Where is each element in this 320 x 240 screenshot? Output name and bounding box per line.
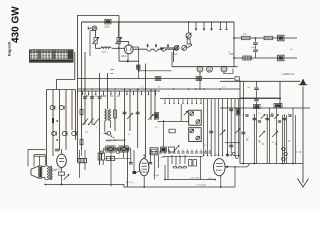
wire: mid col x=92 — [91, 91, 93, 125]
small loops near x=234 y=154 — [232, 152, 235, 155]
wire: right col x=254.3 — [253, 115, 255, 164]
wire: T2 bottom leads — [104, 121, 106, 132]
dark component on y=108 (x=274-282) — [274, 104, 282, 108]
pot arrow on x=151 — [148, 114, 154, 120]
wire: right col x=267.2 — [266, 115, 268, 164]
loop coil small 1 — [282, 147, 285, 150]
svg-text:5000: 5000 — [101, 95, 107, 98]
svg-text:1M: 1M — [85, 132, 88, 134]
wire: left col x=66 — [65, 90, 67, 151]
resistor R4 on B+ line — [264, 36, 273, 39]
bus: chassis bus y=89 (long) — [78, 88, 241, 90]
svg-text:AZ 1: AZ 1 — [121, 55, 127, 58]
cap x=231 y=146 — [229, 144, 233, 146]
junction: bus/vertical x=119 — [118, 21, 120, 23]
wire: electrolytic leads — [79, 163, 81, 178]
wire: V3 branch to bottom bus — [61, 175, 63, 184]
wire: trimmer chain up to resistor — [187, 44, 192, 48]
svg-text:0,2A: 0,2A — [105, 25, 110, 28]
tuning capacitor / dial block (hatched) — [30, 50, 74, 62]
wire: transformer top to column x=45.3 — [44, 155, 46, 166]
rectifier tube V1 (circle) — [124, 45, 133, 54]
wire: V3 down lead — [61, 167, 63, 172]
wire: right col x=269.5 — [269, 108, 271, 164]
wire: left col x=46.5 — [46, 90, 48, 166]
ground arrow (down) at x=303 — [302, 164, 304, 184]
cap on x=211 y=132 — [209, 130, 213, 132]
wire: right col x=282.4 — [281, 115, 283, 164]
small boxes x=188-196 y=160-170 — [189, 160, 192, 167]
bus: bottom left y=184.5 — [45, 184, 124, 186]
wire: right col x=284.4 — [283, 115, 285, 164]
electrolytic block (dark) x=78-86 — [78, 158, 87, 162]
cap C14 x=92 — [90, 96, 94, 98]
wire: drop from heater chain x=173.5 — [173, 50, 175, 62]
wire: V5 cathode down to bus — [220, 176, 222, 187]
wire: left rail x=77.5 vertical — [77, 16, 79, 163]
resistor R5 on y=58 line (hatched) — [243, 56, 252, 60]
junction dots left cols — [56, 120, 58, 122]
wire: mid-right col x=227.5 — [227, 99, 229, 156]
wire: speaker to transformer top — [42, 165, 48, 168]
trimmer pair T2 — [182, 46, 187, 51]
cap C15 x=99.6 — [98, 96, 102, 98]
cap x=231.2 y=110 — [229, 108, 233, 110]
dots tops right forest — [243, 114, 244, 115]
resistor boxes x=98-103 — [98, 153, 101, 160]
cap right col a — [241, 131, 245, 133]
svg-text:VL4: VL4 — [209, 178, 214, 181]
small circle symbols row x 100-130 y 151 — [100, 151, 103, 154]
cap symbol circle pair row y=108 a — [50, 106, 54, 110]
IF transformer T2 windings — [105, 109, 106, 121]
wire: V4 top lead — [143, 154, 145, 159]
voltage selector pot P1 (circle with arrow) — [186, 33, 191, 38]
wire: vertical x=158.5 short — [158, 155, 160, 168]
wire: V4 cathode down to bus — [143, 176, 145, 187]
loudspeaker LS (cone + frame) — [31, 166, 39, 178]
model label text: 430 GW (vertical, rotated) — [11, 6, 22, 43]
component box on y=78.5 bus (x=157) — [155, 77, 161, 81]
wire: right col x=276.7 — [276, 108, 278, 164]
wire: y=158.5 mid bottom with boxes — [105, 158, 131, 160]
junction dot row y=156 under forest — [203, 155, 204, 156]
wire: branch y=70.8 from x=138.7 to sockets — [139, 70, 172, 72]
resistor tick x=53 y=120 — [52, 118, 54, 123]
electrolytic cap C4 (dark box) on y=58 line — [278, 55, 285, 61]
wire: right col x=295.3 — [294, 115, 296, 164]
wire: lead into trimmer pair from left — [160, 47, 174, 49]
band switch arm 3 — [94, 119, 99, 125]
wire: left col x=75.5 lower — [75, 90, 77, 141]
pot arrow on x=130 — [127, 113, 133, 119]
band switch arm 1 — [83, 119, 88, 125]
wire: x=123.5 stub below block B — [123, 152, 125, 158]
junction dots bottom left bus — [61, 184, 63, 186]
wire: vertical x=181.2 into can D — [180, 104, 182, 122]
wire: socket line y=66.7 — [172, 66, 238, 68]
resistor R7 x=115 — [114, 110, 117, 118]
wire: mid-right col x=235 — [234, 99, 236, 156]
junction dots on chassis bus — [84, 88, 86, 90]
switch stub pair (x=226.5) — [226, 22, 228, 30]
socket circle S1 — [197, 66, 203, 72]
wire: horizontal y=140.1 — [106, 139, 126, 141]
wire: inner line y=98 right block — [240, 97, 281, 99]
wire: horizontal y=61.2 from x=119 to x=138.7 — [119, 60, 139, 62]
X-box block B (dark) — [119, 146, 128, 152]
wire: mid-right col x=211.2 — [210, 99, 212, 156]
bus: y=179.5 mid bottom — [165, 179, 215, 181]
cap symbol circle row y=134 a — [52, 131, 56, 135]
wire: lamp drop to R1 — [95, 31, 97, 38]
wire: lower right line y=58 — [234, 57, 297, 59]
heater tap stub 1 with arrow — [147, 44, 149, 48]
wire: mid-right col x=215 — [214, 99, 216, 156]
heater tap stub 2 with arrow — [155, 44, 157, 48]
electrolytic cap C3 (dark box) on B+ line — [278, 35, 285, 41]
cap symbol circle row y=134 c — [72, 131, 76, 135]
cap tick row y=152 (x 151..212) — [151, 150, 153, 152]
coil L1 (hum filter choke) — [101, 47, 111, 49]
resistor R2 with pot arrow — [117, 37, 120, 43]
tick stub row under chassis bus left — [82, 91, 84, 95]
resistor under P1 — [187, 39, 190, 44]
wire: left col x=53 — [52, 90, 54, 157]
wire: mid col x=130 — [129, 89, 131, 131]
wire: right rail x=234 from bus — [233, 22, 235, 67]
dark component on y=108 (x=254-260) — [254, 105, 261, 109]
tiny tick labels under pots right — [246, 139, 248, 141]
bus: y=78.5 mid (long) — [78, 78, 235, 80]
small box pair on y=158.5 — [106, 156, 110, 160]
bus: y=98.5 mid-right — [160, 98, 281, 100]
junction dots bottom right bus — [253, 163, 255, 165]
output transformer Tr windings — [47, 166, 48, 180]
driver tube V4 (oval) mid — [139, 159, 149, 176]
specks under V2 circle — [111, 136, 112, 137]
wire: vertical x=180 to loops — [179, 155, 181, 164]
fuse Si1 on mains bus — [105, 19, 111, 24]
wire: x=172 from 52 to 66.7 — [171, 52, 173, 67]
wire: R1 bottom to coil — [96, 44, 101, 49]
pot arrow x=176.8 y=148 — [174, 145, 179, 150]
cap on x=124.5 y=113 — [123, 111, 127, 113]
bus: y=108 right — [220, 107, 310, 109]
IF can E (box with trimmers) — [189, 128, 202, 142]
heater tap stub 3 with arrow — [167, 44, 169, 48]
switch stub row on mains bus (x=211.5) — [211, 22, 213, 31]
wire: vertical x=200.5 down — [200, 156, 202, 180]
band switch arm 2 — [89, 119, 94, 125]
wire: col x=39.6 — [39, 156, 41, 166]
X-box block A (dark) — [106, 146, 115, 152]
loop coil small 3 — [282, 157, 285, 160]
cap on x=227.5 above V5 — [227, 150, 229, 154]
wire: mid-right col x=218.7 — [218, 99, 220, 156]
bus: second line y=91 left part — [78, 90, 161, 92]
wire: left col x=72 — [71, 90, 73, 131]
svg-text:≈ 4×0,1μF: ≈ 4×0,1μF — [196, 183, 207, 186]
wire: mid col x=137.7 — [137, 89, 139, 148]
resistor box on left rail y=142 — [80, 139, 83, 145]
heater chain end connector — [175, 47, 178, 50]
wire: left feeder x=134 with dark blob — [133, 150, 135, 171]
wire: mid-right col x=207.5 — [207, 99, 209, 156]
wire: mid col x=145.6 — [145, 64, 147, 159]
bus: bottom right y=163.5 — [240, 163, 303, 165]
wire: block right lead to rail x=74.8 — [74, 52, 76, 80]
wire: horizontals y=154.5 left — [34, 154, 45, 156]
resistor box on left rail y=112 — [80, 109, 83, 115]
wire: mid col x=85 — [84, 91, 86, 125]
wire: x=111 down from block A — [110, 152, 112, 187]
cap C11 on x=256.5 (y 88-92) — [256, 81, 258, 87]
wire: mid col x=115 — [114, 91, 116, 131]
capacitor C1 (on x=255.5 between lines) — [255, 38, 257, 42]
junction at x=118.6 y=48.3 — [118, 47, 120, 49]
pot arrow right col c — [272, 131, 278, 137]
dark resistor box x=156.5 y=115.5 — [155, 113, 159, 120]
wire: x=165 vertical to grid row — [164, 165, 166, 180]
wire: right col x=243.4 — [242, 81, 244, 163]
wire: verticals under socket row to forest bottom — [167, 156, 169, 180]
component box on y=78.5 bus (x=237) small — [235, 77, 239, 80]
wire: right col x=286.7 — [286, 115, 288, 164]
wire: y=156.3 connector under forest — [163, 155, 203, 157]
bus: y=187 bottom long — [124, 186, 236, 188]
svg-text:≈+4/20V–Δ: ≈+4/20V–Δ — [281, 72, 294, 76]
loop coil small 2 — [284, 152, 287, 155]
dark can box x=153 y=148 — [150, 148, 158, 155]
wire: x=81.5 tail to switch row — [81, 150, 83, 156]
switch stub pair (x=220.5) — [220, 22, 222, 30]
svg-text:C/EM2: C/EM2 — [105, 141, 112, 143]
cap C13 x=85 — [83, 96, 87, 98]
component tick row y=99-104 — [164, 99, 166, 104]
wire: mid-right col x=222.5 — [222, 99, 224, 156]
small box on feeder x=172 — [169, 129, 175, 133]
detector tube V3 (oval) left — [57, 154, 67, 167]
socket circle S3 — [221, 66, 227, 72]
cap on x=130.8 — [130, 150, 132, 162]
grid loop row under tubes — [173, 166, 187, 168]
AM arrow annotation — [184, 111, 188, 115]
cap symbol circle pair row y=108 b — [59, 106, 63, 110]
output tube V5 (oval) right — [214, 159, 226, 176]
wire: left col x=59.5 — [59, 90, 61, 151]
wire: B+ line y=38 — [234, 37, 297, 39]
tube V1 top lead — [128, 42, 130, 46]
cap on x=137.7 y=113 — [136, 111, 140, 113]
wire: vertical x=185 to loops — [184, 155, 186, 164]
wire: col x=34 down — [33, 155, 35, 167]
pot arrow under V3 — [64, 174, 70, 180]
resistor R6 (dark box) on x=138.7 — [137, 65, 140, 69]
wire: vertical x=138.7 down — [138, 47, 140, 79]
wire: horizontal y=142.7 right-mid — [225, 142, 240, 144]
wire: lamp bottom lead to x=90 — [90, 31, 95, 57]
cap C10 x=57.2 y=150 — [55, 148, 59, 150]
wire: vertical x=150.5 with cap — [150, 150, 152, 162]
wire: right col x=256.6 — [256, 108, 258, 164]
wire: top-left horizontal y=15.5 — [77, 15, 119, 17]
trimmer pair T1 — [174, 46, 179, 51]
wire: vertical x=119 from top — [118, 16, 120, 47]
wire: blob to tube grid — [136, 171, 140, 173]
wire: mid col x=155 — [154, 89, 156, 120]
IF can D (box with trimmers) — [189, 110, 202, 125]
capacitor C2 below C1 — [255, 45, 257, 49]
svg-text:1000: 1000 — [102, 52, 108, 54]
cap C12 on x=256.5 (y 99-103) — [256, 90, 258, 98]
flank circles of X-boxes — [104, 148, 106, 150]
thermistor blob on heater chain — [160, 47, 164, 49]
wire: feeder x=163.5 to dark pair — [163, 120, 165, 147]
wire: box left x=240 — [239, 81, 241, 163]
wire: socket S1 drop to chassis bus — [199, 72, 201, 89]
wire: mid col x=124.5 — [124, 89, 126, 148]
component row under V3: small box — [59, 172, 65, 175]
wire: transformer to V3 link — [52, 169, 56, 171]
brand label text (vertical, small) — [7, 41, 12, 56]
component box on y=78.5 bus (x=197) — [196, 77, 202, 81]
wire: vertical x=85 upper — [84, 52, 86, 91]
svg-text:4µΔ: 4µΔ — [174, 53, 178, 56]
wire: left riser x=127.5 to bottom bus — [127, 148, 129, 187]
resistor R3 on B+ line — [242, 36, 251, 39]
wire: R2 top to bus x=119 — [118, 22, 120, 37]
svg-text:2×50: 2×50 — [251, 46, 257, 49]
wire: V1 anode lead right — [131, 46, 139, 48]
dark box x=238 y=112 — [236, 109, 240, 115]
switch stub row on mains bus (x=196) — [195, 22, 197, 31]
cap symbol circle row y=134 b — [62, 131, 66, 135]
dial lamp La1 — [92, 26, 97, 31]
caps top row right forest — [253, 117, 257, 119]
junction x=234 y=58 — [233, 57, 235, 59]
wire: coil to rectifier tube — [112, 47, 124, 49]
dark component pair lower-left of cans — [161, 147, 167, 152]
bus: y=81.3 right — [220, 80, 300, 82]
small component near x=232 y=53 — [230, 53, 235, 55]
junction dot at (127.7,61.2) — [127, 60, 129, 62]
wire: speaker feed from left x=28 — [28, 150, 45, 167]
pot arrow x=222.5 y=132 — [220, 130, 226, 136]
indicator small circle V2 — [107, 132, 111, 136]
wire: x=119 extension down to y=61.2 — [118, 46, 120, 61]
wire: vertical x=154.7 to bus — [154, 155, 156, 180]
socket circle S2 — [207, 66, 213, 72]
resistor R1 with pot arrow — [94, 37, 97, 43]
arrow into tube V5 from right — [226, 166, 232, 168]
wire: speaker to transformer bottom — [42, 178, 48, 180]
wire: V1 bottom lead — [127, 54, 129, 61]
wire: mid col x=107.5 — [107, 73, 109, 109]
wire: left group header y=89.5 — [47, 89, 76, 91]
wire: box right x=280 — [279, 81, 281, 108]
arrow symbol pointing up (speaker feed) — [302, 87, 304, 164]
svg-text:+TR 1,5A: +TR 1,5A — [190, 177, 200, 180]
wire: P1 to bus — [188, 22, 190, 33]
svg-text:430 GW: 430 GW — [11, 6, 22, 43]
cap cluster row y=115-122 extras — [245, 114, 248, 116]
wire: mid-right col x=203.7 — [203, 99, 205, 156]
svg-text:[E.C.L.]: [E.C.L.] — [126, 182, 134, 184]
wire: right end up x=235 — [234, 167, 236, 187]
wire: lamp left lead — [88, 27, 92, 29]
wire: V3 top lead — [61, 149, 63, 155]
junction x=255.5 y=38 — [255, 37, 257, 39]
tiny label dashes near x=112 y=70 — [111, 68, 115, 70]
pot arrow right col b — [259, 131, 265, 137]
wire: heater chain line y=49.2 — [133, 49, 174, 51]
wire: right col x=293 — [292, 108, 294, 164]
junction x=234 y=38 — [233, 37, 235, 39]
wire: mid-right col x=238.7 — [238, 99, 240, 156]
svg-text:Kapsch: Kapsch — [7, 41, 12, 56]
wire: V5 anode line y=166.9 to bus — [231, 166, 247, 168]
wire: vertical x=172 to loops — [171, 155, 173, 164]
pot arrows upper cluster — [261, 114, 265, 118]
wire: vertical x=81.5 below bus (long rail) — [81, 22, 83, 150]
wire: mains bus y=22 — [82, 21, 235, 23]
wire: mid col x=99.6 — [99, 73, 101, 165]
wire: L-step from rail to x=56.5 — [57, 80, 75, 90]
wire: mid col x=151 — [150, 89, 152, 120]
switch stub row on mains bus (x=204) — [203, 22, 205, 31]
wire: corner x=233 y=73.3 — [223, 69, 233, 74]
junction x=240 y=81.3 — [239, 81, 241, 83]
wire: mid-right col x=231.2 — [230, 99, 232, 156]
pot arrow x=237.5 y=131 — [235, 128, 240, 133]
wire: feeder into can D y=121.5 — [158, 121, 189, 123]
